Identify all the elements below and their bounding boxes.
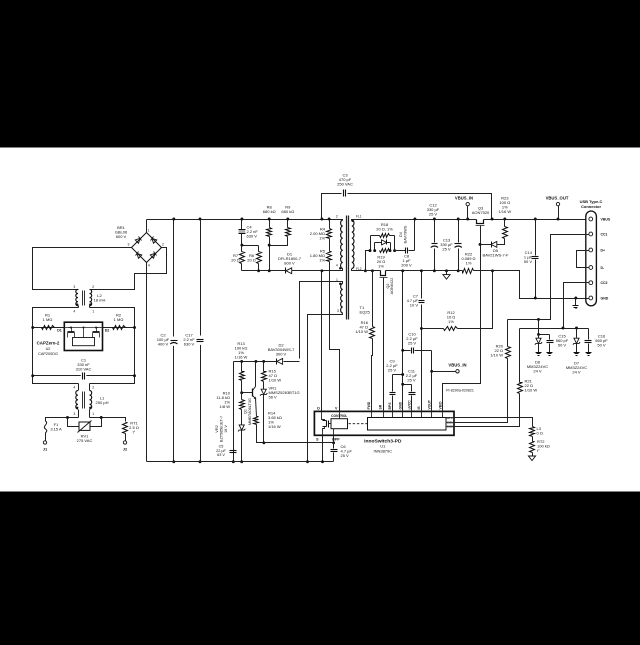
svg-text:FWD: FWD — [367, 401, 371, 409]
wire S pin column — [322, 436, 324, 462]
fuse F1 — [44, 421, 46, 434]
svg-text:25 V: 25 V — [407, 378, 416, 383]
node C12 gnd — [433, 269, 436, 272]
connector USB Type-C shell — [586, 211, 597, 306]
node C14 gnd — [534, 297, 537, 300]
wire R5 to V pin — [330, 262, 340, 412]
svg-text:J1: J1 — [43, 447, 48, 452]
label D1 — [278, 252, 302, 266]
svg-text:1%: 1% — [378, 264, 384, 269]
diode D2 — [277, 359, 283, 365]
node right rail / R2 — [133, 326, 136, 329]
label C2 — [157, 333, 170, 347]
wire C17 column — [200, 220, 202, 462]
resistor R12 — [422, 271, 493, 331]
label L3 — [537, 426, 543, 436]
capacitor C17 — [195, 336, 205, 344]
pin labels T1 — [336, 214, 362, 313]
node snubber bl — [369, 249, 397, 252]
transformer T1 bias winding — [300, 282, 343, 359]
resistor R14 — [254, 399, 264, 443]
node C5 bottom — [232, 460, 235, 463]
ground C15 — [547, 353, 553, 356]
label U1 name — [364, 438, 402, 453]
node bus snubber — [413, 218, 416, 221]
capacitor C10 — [403, 348, 432, 354]
svg-text:1/16 W: 1/16 W — [235, 355, 248, 360]
transformer T1 core — [347, 216, 349, 320]
wire CC2 row — [520, 328, 589, 330]
bridge rectifier BR1 — [132, 233, 162, 263]
wire NTC — [455, 418, 533, 427]
svg-text:50 V: 50 V — [524, 259, 533, 264]
resistor R20 — [455, 320, 511, 423]
svg-text:680 kΩ: 680 kΩ — [281, 209, 294, 214]
svg-text:1/16 W: 1/16 W — [268, 424, 281, 429]
terminal J2 — [123, 441, 126, 444]
wire L1.3 to F1 — [46, 418, 79, 422]
inductor L1 — [76, 384, 92, 418]
ground secondary — [443, 271, 450, 280]
node R6 bottom — [257, 269, 260, 272]
label U1 pin GND — [399, 401, 403, 409]
ic U2 CAPZero-2 — [64, 322, 102, 350]
svg-text:250 µH: 250 µH — [96, 400, 109, 405]
label U1 pin BPS — [388, 402, 392, 410]
svg-text:4: 4 — [148, 264, 150, 268]
node bus C3 riser — [320, 218, 323, 221]
label R15 — [269, 369, 282, 383]
svg-text:4: 4 — [73, 386, 75, 390]
wire BR1.3 to L2.3 — [33, 248, 132, 290]
wire IS column — [421, 271, 423, 412]
svg-text:CAPZero-2: CAPZero-2 — [37, 341, 60, 346]
label C10 — [406, 332, 418, 346]
svg-text:VOUT: VOUT — [428, 399, 432, 409]
label J2 — [123, 447, 128, 452]
ground C16 — [586, 353, 592, 356]
svg-text:1: 1 — [92, 412, 94, 416]
node BPP pin — [332, 441, 335, 444]
wire BR1.1 to bus — [146, 220, 148, 233]
wire L2.4 to left rail to L1.4 — [33, 308, 79, 384]
svg-text:SR: SR — [378, 404, 382, 409]
resistor R1 — [42, 326, 55, 330]
svg-text:1/10 W: 1/10 W — [525, 388, 538, 393]
label R5 — [310, 249, 326, 263]
zener VR1 — [260, 382, 267, 443]
capacitor C4 — [239, 230, 246, 234]
label L1 — [96, 396, 109, 406]
wire C2 column — [173, 220, 175, 462]
resistor R13 — [240, 362, 245, 381]
connector pin GND — [589, 296, 609, 300]
label R22 — [461, 252, 475, 266]
capacitor C5 — [230, 451, 237, 453]
svg-text:20 Ω: 20 Ω — [247, 258, 256, 263]
transistor Q3 — [476, 220, 485, 245]
capacitor C8 — [406, 248, 408, 254]
label C1 — [76, 358, 92, 372]
wire VB/D riser — [443, 245, 481, 412]
label U1 pin FWD — [367, 401, 371, 409]
label U1 pin uVCC — [407, 400, 411, 410]
svg-text:1: 1 — [92, 310, 94, 314]
label U1 pin IS — [417, 406, 421, 410]
node R13 top — [240, 360, 243, 363]
node bus C13 — [457, 218, 460, 221]
svg-text:25 V: 25 V — [442, 247, 451, 252]
wire RV1 legs — [68, 418, 102, 427]
ic U1 InnoSwitch3-PD — [314, 411, 454, 435]
node IS/R12 — [420, 327, 423, 330]
svg-text:3: 3 — [337, 309, 339, 313]
svg-text:GND: GND — [399, 401, 403, 409]
svg-text:1/10 W: 1/10 W — [490, 353, 503, 358]
node bias return — [306, 460, 309, 463]
diode D5 — [481, 242, 505, 248]
svg-text:BPS: BPS — [388, 402, 392, 410]
svg-text:3: 3 — [73, 285, 75, 289]
svg-text:310 VAC: 310 VAC — [76, 367, 92, 372]
svg-text:NTC: NTC — [447, 416, 454, 420]
label R6 — [247, 253, 256, 263]
label CONTROL — [331, 414, 347, 418]
node D7 top — [575, 327, 578, 330]
connector pin D- — [589, 266, 605, 270]
svg-text:VB/D: VB/D — [438, 401, 442, 410]
svg-text:uVCC: uVCC — [407, 400, 411, 410]
wire bottom rail — [147, 461, 334, 463]
svg-text:D2: D2 — [105, 329, 110, 333]
node usb gnd — [574, 297, 577, 300]
svg-text:18 mH: 18 mH — [94, 298, 106, 303]
label R2 — [114, 313, 124, 323]
node C10/GND — [401, 349, 404, 352]
label C14 — [524, 250, 533, 264]
capacitor C6 — [331, 450, 338, 452]
capacitor C11 — [403, 385, 416, 412]
label R10 — [216, 391, 230, 410]
transformer T1 primary winding — [339, 220, 343, 271]
label C11 — [406, 369, 418, 383]
label C7 — [407, 294, 419, 308]
svg-text:PI-8290a-020821: PI-8290a-020821 — [446, 389, 474, 393]
label U1 pin CC1 — [447, 421, 453, 425]
wire FL2 row — [354, 270, 459, 272]
terminal VBUS_OUT — [556, 202, 559, 219]
node VR2 bottom — [240, 460, 243, 463]
svg-text:300 V: 300 V — [276, 352, 287, 357]
node bus C14 — [534, 218, 537, 221]
label C9 — [386, 359, 398, 373]
resistor R19 — [380, 249, 390, 253]
label R18 — [376, 222, 393, 232]
label T1 — [360, 305, 371, 315]
pin labels BR1 — [128, 229, 165, 268]
svg-text:1 MΩ: 1 MΩ — [114, 317, 124, 322]
svg-text:BAV79WS: BAV79WS — [403, 225, 407, 243]
wire CC1 — [508, 235, 589, 320]
svg-text:1/10 W: 1/10 W — [269, 378, 282, 383]
svg-text:3: 3 — [128, 243, 130, 247]
label R1 — [43, 313, 53, 323]
node C1 left — [31, 374, 34, 377]
wire VOUT column — [431, 351, 433, 412]
svg-text:3: 3 — [73, 412, 75, 416]
label D6 — [527, 360, 548, 374]
node R15 top — [262, 360, 265, 363]
svg-text:1%: 1% — [319, 258, 325, 263]
svg-text:200 V: 200 V — [401, 263, 412, 268]
svg-text:25 V: 25 V — [429, 212, 438, 217]
resistor R5 — [327, 239, 332, 262]
svg-text:D1: D1 — [57, 329, 62, 333]
label U1 pin CC2 — [447, 424, 453, 428]
capacitor C15 — [547, 335, 554, 353]
label VBUS_IN lower — [448, 363, 466, 368]
node C13 gnd — [457, 269, 460, 272]
node C1 right — [133, 374, 136, 377]
resistor R10 — [240, 381, 245, 410]
svg-text:CONTROL: CONTROL — [331, 414, 347, 418]
svg-text:D+: D+ — [601, 249, 606, 253]
svg-text:EQ25: EQ25 — [360, 310, 371, 315]
resistor L3 — [530, 427, 535, 437]
wire bias return — [307, 321, 309, 462]
svg-text:50 V: 50 V — [597, 343, 606, 348]
capacitor C13 — [455, 220, 462, 271]
svg-text:VBUS_OUT: VBUS_OUT — [546, 196, 569, 201]
diode D1 — [286, 268, 292, 274]
capacitor C14 — [532, 220, 539, 299]
label D7 — [566, 361, 587, 375]
node VOUT/VBUS_IN — [430, 370, 433, 373]
node R9/R8 join — [268, 244, 271, 247]
node D pin riser — [320, 269, 323, 272]
resistor R15 — [262, 362, 267, 382]
label F1 — [50, 422, 62, 432]
inductor L2 (common-mode choke) — [76, 289, 92, 307]
capacitor C16 — [585, 329, 592, 353]
connector pin VBUS — [589, 217, 611, 221]
wire main bus B+ — [147, 219, 342, 221]
svg-text:VR2: VR2 — [215, 425, 219, 432]
diode D4 — [382, 240, 387, 245]
node C4/R7 — [240, 244, 243, 247]
label R14 — [268, 411, 282, 430]
label U1 pin S — [316, 437, 319, 441]
resistor R9 — [270, 220, 291, 246]
svg-text:VBUS_IN: VBUS_IN — [455, 196, 473, 201]
svg-text:D: D — [317, 406, 320, 410]
wire snubber bars — [371, 236, 395, 251]
svg-text:1 MΩ: 1 MΩ — [43, 317, 53, 322]
wire D1 to T1 pin4 — [292, 270, 342, 272]
node S pin bottom — [321, 460, 324, 463]
label U1 pin NTC — [447, 416, 454, 420]
node Q1 collector — [254, 360, 257, 363]
svg-text:2: 2 — [92, 285, 94, 289]
capacitor C1 — [81, 372, 86, 380]
capacitor C7 — [419, 301, 425, 303]
svg-text:4: 4 — [73, 310, 75, 314]
svg-text:AON6422: AON6422 — [390, 278, 394, 295]
label R7 — [231, 253, 240, 263]
label C5 — [215, 416, 228, 457]
label R23 — [498, 196, 511, 215]
svg-text:20 Ω, 1%: 20 Ω, 1% — [376, 227, 393, 232]
svg-text:VBUS_IN: VBUS_IN — [448, 363, 466, 368]
svg-text:50 V: 50 V — [558, 343, 567, 348]
node bus C12 — [433, 218, 436, 221]
svg-text:630 V: 630 V — [184, 342, 195, 347]
svg-text:18 V: 18 V — [224, 425, 228, 433]
varistor RV1 — [78, 421, 92, 433]
label Q2 — [386, 278, 394, 295]
node C17 bottom — [199, 460, 202, 463]
terminal J1 — [43, 441, 46, 444]
label U2 pin D1 — [57, 329, 62, 333]
thermistor RT2 — [530, 437, 535, 457]
label C4 — [247, 225, 259, 239]
label U1 pin D — [317, 406, 320, 410]
svg-text:INN3879C: INN3879C — [373, 449, 392, 454]
svg-text:630 V: 630 V — [247, 234, 258, 239]
svg-text:2: 2 — [162, 243, 164, 247]
label R8 — [263, 205, 276, 215]
svg-text:1%: 1% — [466, 261, 472, 266]
wire L1.1 to RT1 — [90, 418, 126, 422]
transistor Q2 and SR gate wire — [380, 271, 388, 412]
svg-text:FL1: FL1 — [356, 214, 362, 218]
svg-text:1%: 1% — [448, 319, 454, 324]
svg-text:63 V: 63 V — [217, 453, 225, 457]
wire BR1.4 down to bottom rail — [146, 263, 148, 462]
label C16 — [595, 334, 608, 348]
label PI number — [446, 389, 474, 393]
svg-text:600 V: 600 V — [116, 234, 127, 239]
zener D7 — [573, 329, 580, 353]
label RT1 — [129, 421, 139, 435]
node left rail / R1 — [31, 326, 34, 329]
terminal VBUS_IN top — [466, 202, 469, 219]
node GND top — [401, 269, 404, 272]
node C2 bottom — [172, 460, 175, 463]
svg-text:CC2: CC2 — [601, 281, 608, 285]
wire F1 to J1 — [45, 433, 47, 441]
svg-text:2: 2 — [92, 386, 94, 390]
svg-text:250 VAC: 250 VAC — [337, 182, 353, 187]
label C12 — [427, 203, 440, 217]
label BR1 — [115, 225, 128, 239]
label VBUS_IN top — [455, 196, 473, 201]
svg-text:1/8 W: 1/8 W — [220, 404, 231, 409]
svg-text:CAP200DG: CAP200DG — [38, 352, 58, 356]
node bus VBUS_OUT — [557, 218, 560, 221]
wire D6 C15 node — [539, 320, 550, 335]
connector pin CC1 — [589, 232, 608, 236]
svg-text:U2: U2 — [46, 347, 51, 351]
svg-text:24 V: 24 V — [572, 370, 581, 375]
node bus R9 — [286, 218, 289, 221]
node snubber FL2 — [364, 269, 367, 272]
node CC2 join — [562, 327, 565, 330]
resistor R4 — [327, 220, 332, 239]
svg-text:20 Ω: 20 Ω — [231, 258, 240, 263]
pin labels L2 — [73, 285, 94, 313]
svg-text:Q2: Q2 — [386, 283, 390, 288]
svg-text:VBUS: VBUS — [601, 218, 611, 222]
wire RT1 to J2 — [125, 434, 127, 441]
svg-text:BZT585B1ET-7: BZT585B1ET-7 — [219, 416, 223, 442]
connector pin D+ — [589, 248, 605, 252]
label U1 pin VB/D — [438, 401, 442, 410]
node CC1 clamp — [537, 318, 540, 321]
resistor R22 shunt — [459, 269, 493, 274]
label U1 pin BPP — [332, 437, 340, 441]
svg-text:1: 1 — [148, 229, 150, 233]
node BPP join — [262, 441, 265, 444]
node gnd arrow — [445, 269, 448, 272]
svg-text:CC1: CC1 — [601, 233, 608, 237]
svg-text:1%: 1% — [319, 236, 325, 241]
svg-text:25 V: 25 V — [388, 368, 397, 373]
node bus C3 return — [491, 218, 494, 221]
label L2 — [94, 293, 106, 303]
wire C3 link — [322, 194, 492, 220]
node bus R8 — [268, 218, 271, 221]
svg-text:J2: J2 — [123, 447, 128, 452]
label D4 — [399, 225, 407, 243]
capacitor C9 — [390, 375, 403, 412]
svg-text:1/10 W: 1/10 W — [355, 329, 368, 334]
ground D7 — [574, 353, 580, 356]
node R16 top — [371, 269, 374, 272]
svg-text:3.15 A: 3.15 A — [50, 427, 62, 432]
label C6 — [341, 444, 353, 458]
svg-text:MMBTA06LT3G: MMBTA06LT3G — [248, 398, 252, 425]
label R13 — [235, 341, 248, 360]
svg-text:275 VAC: 275 VAC — [77, 438, 93, 443]
ground RT2 — [528, 456, 535, 461]
svg-text:680 kΩ: 680 kΩ — [263, 209, 276, 214]
svg-text:D4: D4 — [399, 232, 403, 237]
svg-text:2: 2 — [336, 214, 338, 218]
node C9/GND — [401, 373, 404, 376]
label C15 — [556, 334, 569, 348]
node bus C4 — [240, 218, 243, 221]
resistor R7 — [240, 246, 245, 271]
ground usb — [573, 299, 579, 309]
svg-text:AON7520: AON7520 — [472, 210, 490, 215]
label R16 — [355, 320, 368, 334]
resistor R23 — [503, 220, 508, 242]
resistor R2 — [113, 326, 126, 330]
node IS top — [420, 269, 423, 272]
transformer T1 secondary winding — [351, 220, 354, 271]
pin labels L1 — [73, 386, 94, 416]
node D6 top — [537, 333, 540, 336]
resistor R21 — [455, 329, 523, 427]
node bus C2 — [172, 218, 175, 221]
svg-text:GND: GND — [601, 297, 609, 301]
wire clamp bottom — [242, 270, 286, 272]
label U1 pin V — [335, 406, 338, 410]
label U1 pin SR — [378, 404, 382, 409]
wire VBUS bus right — [484, 219, 586, 221]
wire CC2 — [564, 283, 589, 329]
